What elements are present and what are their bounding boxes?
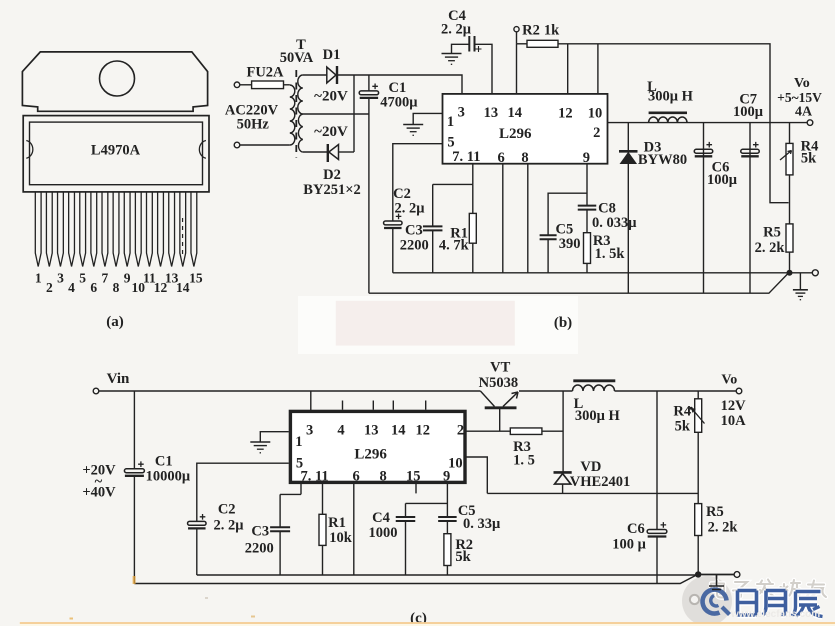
svg-text:2. 2μ: 2. 2μ — [214, 518, 245, 534]
svg-text:12: 12 — [416, 423, 431, 439]
ic U1 L296 box (b) — [443, 94, 608, 164]
svg-text:300μ H: 300μ H — [575, 408, 621, 424]
chip pin 5 — [80, 192, 86, 267]
wire pin7 stub (c) — [300, 483, 302, 494]
diode D2 — [328, 144, 339, 162]
wire C5 to R2 (c) — [446, 521, 448, 534]
wire C3 top (c) — [279, 494, 281, 527]
svg-text:9: 9 — [443, 469, 450, 485]
svg-text:N5038: N5038 — [479, 375, 518, 391]
svg-text:6: 6 — [90, 280, 97, 295]
ground rail lower (b) — [369, 274, 788, 293]
svg-text:4: 4 — [68, 280, 75, 295]
svg-text:14: 14 — [176, 280, 190, 295]
svg-text:1: 1 — [35, 271, 42, 286]
wire C6 down (c) — [656, 536, 658, 584]
svg-text:2: 2 — [593, 125, 600, 141]
svg-text:3: 3 — [57, 271, 64, 286]
watermark gray text shao — [781, 580, 801, 597]
transistor VT emitter with arrow — [503, 392, 518, 407]
chip side notch left — [26, 141, 33, 159]
ground rail upper (b) — [393, 272, 813, 274]
svg-text:C3: C3 — [251, 523, 269, 539]
wire R5 bottom — [789, 252, 791, 273]
wire pin2 to R3 (c) — [467, 430, 511, 432]
svg-text:8: 8 — [379, 469, 386, 485]
bottom rail inner (c) — [197, 574, 695, 576]
wire C6 vertical (c) — [656, 391, 658, 529]
potentiometer R4 (b) — [786, 143, 793, 175]
svg-text:C6: C6 — [627, 521, 645, 537]
svg-text:L296: L296 — [354, 447, 387, 463]
chip body outer — [23, 116, 209, 192]
svg-text:13: 13 — [484, 105, 499, 121]
svg-text:2200: 2200 — [400, 238, 429, 254]
wire C7 vertical — [749, 123, 751, 294]
wire C6 vertical (b) — [703, 123, 705, 294]
wire C1 down (c) — [133, 476, 135, 584]
transistor VT base bar — [485, 406, 517, 409]
svg-text:2. 2k: 2. 2k — [755, 240, 786, 256]
wire R2 bottom (c) — [446, 566, 448, 576]
svg-text:L296: L296 — [499, 126, 532, 142]
watermark small circle — [690, 595, 699, 604]
wire pin9 down (c) — [446, 483, 448, 517]
svg-text:VD: VD — [580, 459, 601, 475]
svg-text:3: 3 — [458, 104, 465, 120]
wire pin6 stub down (c) — [353, 483, 355, 575]
wire R1 bottom — [472, 243, 474, 273]
chip pin 14 — [180, 192, 186, 267]
svg-text:10000μ: 10000μ — [146, 468, 191, 484]
svg-text:10k: 10k — [329, 530, 353, 546]
wire R5 bottom (c) — [697, 536, 699, 575]
ground at C4 — [442, 54, 462, 65]
svg-text:+5~15V: +5~15V — [777, 90, 822, 105]
output terminal top (b) — [807, 120, 813, 126]
bottom cream strip — [20, 622, 835, 626]
wire R4 to R5 — [789, 175, 791, 224]
wire R3 right (c) — [542, 430, 563, 432]
svg-text:~20V: ~20V — [314, 89, 348, 105]
svg-text:R1: R1 — [328, 515, 346, 531]
wire C1 branch (c) — [133, 391, 135, 469]
svg-text:2. 2μ: 2. 2μ — [441, 22, 472, 38]
wire emitter to inductor rail — [519, 390, 573, 392]
pin stub top (c) — [425, 401, 427, 410]
chip pin 6 — [91, 192, 97, 267]
capacitor C6 (c) — [647, 522, 667, 536]
svg-text:100 μ: 100 μ — [612, 536, 646, 552]
wire R2 terminal down — [516, 32, 518, 44]
svg-text:C1: C1 — [155, 453, 173, 469]
resistor R3 (c) — [510, 428, 542, 435]
wire center tap — [303, 113, 369, 115]
svg-text:1: 1 — [295, 434, 302, 450]
svg-text:10A: 10A — [721, 413, 747, 429]
svg-text:1: 1 — [447, 114, 454, 130]
inductor L (c) — [573, 385, 615, 391]
chip pin 15 — [191, 192, 197, 267]
wire R2 left — [517, 43, 528, 45]
svg-text:2. 2k: 2. 2k — [708, 519, 739, 535]
wire VD bottom to mid rail — [562, 484, 564, 493]
scan speck 2 — [70, 618, 74, 620]
svg-text:BY251×2: BY251×2 — [303, 182, 360, 198]
svg-text:7: 7 — [102, 271, 109, 286]
svg-text:50Hz: 50Hz — [237, 117, 270, 133]
svg-text:5k: 5k — [455, 549, 471, 565]
scan speck 3 — [251, 616, 255, 618]
resistor R2 1k — [527, 40, 558, 47]
wire R2 right long to R4-R5 junction — [558, 44, 789, 203]
resistor R1 (b) — [469, 213, 476, 243]
bottom rail outer (c) — [134, 575, 696, 583]
wire C5 branch — [548, 193, 587, 235]
svg-text:15: 15 — [406, 469, 421, 485]
svg-text:VT: VT — [490, 360, 510, 376]
pin stub top (c) — [342, 401, 344, 410]
wire connector C4 (c) — [406, 502, 448, 504]
wire ground stem (c) — [716, 575, 718, 586]
resistor R5 (c) — [695, 504, 702, 536]
svg-text:50VA: 50VA — [280, 50, 314, 66]
chip pin 14 dashed mark — [182, 218, 184, 258]
svg-text:R5: R5 — [706, 504, 724, 520]
svg-text:2: 2 — [457, 423, 464, 439]
chip pin 2 — [46, 192, 52, 267]
svg-text:~20V: ~20V — [314, 124, 348, 140]
svg-text:4. 7k: 4. 7k — [439, 238, 470, 254]
transistor VT base stem — [499, 409, 501, 431]
wire VD vertical upper — [562, 391, 564, 472]
output terminal bottom (c) — [734, 572, 740, 578]
watermark blue char chen — [792, 592, 823, 617]
svg-text:(b): (b) — [554, 315, 572, 331]
svg-text:2. 2μ: 2. 2μ — [395, 201, 426, 217]
svg-text:R5: R5 — [763, 225, 781, 241]
svg-text:R2: R2 — [522, 23, 540, 39]
wire D2 cathode junction vertical — [353, 75, 355, 152]
wire R4 top (c) — [697, 391, 699, 399]
svg-text:8: 8 — [113, 280, 120, 295]
chip pin 11 — [147, 192, 153, 267]
chip pin 8 — [113, 192, 119, 267]
svg-text:5k: 5k — [675, 419, 691, 435]
watermark gray text dian — [711, 581, 726, 598]
svg-text:300μ H: 300μ H — [648, 89, 694, 105]
wire C1 down to ground rail — [368, 98, 370, 293]
resistor R5 (b) — [786, 224, 793, 252]
resistor R3 (b) — [584, 233, 591, 264]
watermark blue char yue — [763, 591, 786, 616]
transformer secondary lower winding — [298, 114, 302, 152]
wire connector C3-R1 — [433, 183, 473, 185]
wire junction to terminal (c) — [701, 574, 734, 576]
wire pin8 stub down — [527, 164, 529, 273]
junction redraw (c) — [695, 571, 701, 577]
svg-text:C2: C2 — [218, 501, 236, 517]
wire inductor to output (c) — [615, 390, 737, 392]
wire D1 to pin3 corner — [337, 75, 462, 94]
svg-text:C2: C2 — [393, 186, 411, 202]
chip side notch right — [199, 141, 206, 159]
svg-text:6: 6 — [497, 150, 504, 166]
ground at pin1 (b) — [403, 125, 423, 136]
wire D2 to junction — [339, 151, 355, 153]
wire pin9 down — [586, 164, 588, 206]
wire C5 bottom — [547, 239, 549, 272]
capacitor C1 — [359, 84, 378, 98]
watermark blue swirl logo — [703, 590, 730, 615]
terminal R2 top — [514, 27, 519, 32]
svg-text:C3: C3 — [405, 223, 423, 239]
svg-text:12: 12 — [558, 105, 573, 121]
watermark gray text zi — [733, 582, 749, 598]
pin stub top (c) — [372, 401, 374, 410]
transformer core — [295, 70, 297, 158]
svg-text:Vo: Vo — [721, 372, 737, 387]
scan speck 4 — [205, 597, 208, 599]
svg-text:D2: D2 — [323, 167, 341, 183]
wire AC input top — [240, 84, 252, 86]
svg-text:1. 5k: 1. 5k — [595, 246, 626, 262]
ground (c) partially hidden — [709, 586, 724, 590]
svg-text:+40V: +40V — [82, 485, 116, 501]
wire pin2 output rail — [608, 122, 808, 124]
scan speck 1 — [133, 576, 136, 584]
pin stub top (c) — [392, 401, 394, 410]
fuse FU2A — [252, 81, 284, 89]
diode D1 — [327, 66, 337, 84]
svg-text:2: 2 — [46, 280, 53, 295]
wire R1 bottom (c) — [322, 545, 324, 575]
wire C2 down (c) — [196, 528, 198, 575]
svg-text:FU2A: FU2A — [246, 65, 284, 81]
capacitor C5 (b) — [540, 235, 557, 239]
input terminal top (b) — [234, 82, 240, 88]
wire stub pin10 top — [597, 44, 599, 94]
wire C4 top (c) — [405, 503, 407, 516]
capacitor C5 (c) — [438, 517, 457, 521]
wire connector pin7 to C3 (c) — [280, 493, 301, 495]
wire R3 bottom — [586, 263, 588, 272]
svg-text:390: 390 — [559, 236, 581, 252]
R4 wiper arrow (c) — [692, 409, 705, 424]
svg-text:4: 4 — [337, 423, 344, 439]
wire pin6 stub down — [502, 164, 504, 273]
wire fuse to primary — [284, 84, 290, 86]
ground (c) redraw over watermark — [709, 575, 724, 590]
resistor R1 (c) — [319, 514, 326, 545]
wire secondary top to D1 — [303, 74, 327, 76]
wire C3 top — [432, 184, 434, 226]
svg-text:7. 11: 7. 11 — [452, 149, 480, 165]
junction dot (c) — [695, 571, 701, 577]
watermark gray text you — [807, 581, 827, 598]
svg-text:0. 033μ: 0. 033μ — [592, 215, 637, 231]
wire pin7-11 stub — [472, 164, 474, 185]
svg-text:(a): (a) — [106, 314, 124, 330]
wire pin1 to ground (c) — [260, 432, 289, 442]
input terminal Vin — [93, 388, 99, 394]
inductor L (b) — [649, 117, 687, 123]
chip pin 13 — [169, 192, 175, 267]
junction dot (b) — [787, 270, 793, 276]
resistor R2 (c) — [444, 534, 451, 566]
svg-text:5: 5 — [447, 134, 454, 150]
wire D3 vertical — [627, 123, 629, 294]
wire Vin rail — [99, 390, 481, 392]
background patch — [298, 296, 578, 354]
svg-text:100μ: 100μ — [733, 104, 764, 120]
R4 wiper arrow (b) — [780, 151, 792, 161]
wire C4 right to pin14 stub — [475, 44, 493, 94]
chip tab hole — [100, 61, 135, 96]
wire C2 down to rail — [392, 228, 394, 273]
wire R1 top — [472, 184, 474, 213]
svg-text:Vo: Vo — [794, 76, 810, 91]
wire pin15 stub (c) — [415, 483, 417, 493]
svg-text:14: 14 — [508, 105, 523, 121]
input terminal bottom (b) — [234, 142, 240, 148]
wire C3 bottom — [432, 230, 434, 272]
svg-text:2200: 2200 — [245, 541, 274, 557]
potentiometer R4 (c) — [695, 399, 702, 433]
wire box top stub (c) — [310, 391, 312, 410]
svg-text:5: 5 — [79, 271, 86, 286]
capacitor C6 (b) — [694, 142, 713, 156]
diode D3 — [619, 151, 638, 163]
watermark blue char ri — [738, 591, 757, 616]
wire AC input bottom — [240, 144, 290, 146]
wire R1 top (c) — [322, 483, 324, 514]
wire C4 bottom (c) — [405, 521, 407, 575]
chip pin 4 — [69, 192, 75, 267]
capacitor C2 (b) — [384, 214, 403, 228]
svg-text:7. 11: 7. 11 — [300, 469, 328, 485]
svg-text:R4: R4 — [673, 404, 691, 420]
svg-text:10: 10 — [588, 105, 603, 121]
output terminal bottom (b) — [812, 270, 818, 276]
chip body inner — [30, 122, 203, 185]
svg-text:100μ: 100μ — [707, 172, 738, 188]
chip package tab — [22, 52, 207, 111]
svg-text:5k: 5k — [801, 150, 817, 166]
transformer secondary upper winding — [298, 75, 303, 114]
wire redraw junction to terminal (c) — [701, 574, 734, 576]
wire C1 top — [368, 75, 370, 91]
svg-text:4700μ: 4700μ — [380, 95, 418, 111]
mid feedback rail (c) — [487, 492, 698, 494]
svg-text:Vin: Vin — [107, 371, 130, 387]
wire R4 top (b) — [789, 123, 791, 144]
svg-text:4A: 4A — [795, 105, 813, 120]
wire pin5 to C2 — [393, 144, 443, 222]
svg-text:9: 9 — [124, 271, 131, 286]
wire R4 to mid rail junction — [697, 432, 699, 503]
inductor L core bar (b) — [649, 112, 687, 115]
capacitor C8 — [578, 206, 597, 210]
capacitor C2 (c) — [188, 514, 207, 528]
svg-text:12V: 12V — [721, 398, 747, 414]
capacitor C4 — [469, 36, 481, 52]
capacitor C3 (b) — [423, 226, 443, 230]
svg-text:14: 14 — [391, 423, 406, 439]
wire pin1 to ground — [413, 113, 442, 124]
svg-text:D1: D1 — [323, 47, 341, 63]
svg-text:www.elecfans.com: www.elecfans.com — [730, 609, 820, 620]
svg-text:1000: 1000 — [369, 525, 398, 541]
svg-text:6: 6 — [352, 469, 359, 485]
transistor VT collector lead — [480, 391, 494, 407]
wire pin5 to C2 (c) — [197, 463, 289, 521]
wire C8 to R3 — [586, 210, 588, 233]
output terminal Vo (c) — [736, 388, 742, 394]
svg-text:1k: 1k — [544, 23, 560, 39]
svg-text:1. 5: 1. 5 — [513, 453, 535, 469]
svg-text:8: 8 — [521, 150, 528, 166]
wire C4 left to ground — [452, 44, 470, 53]
capacitor C7 — [741, 142, 760, 156]
svg-text:0. 33μ: 0. 33μ — [463, 516, 501, 532]
capacitor C4 (c) — [396, 517, 416, 521]
wire ground stem (b) — [799, 273, 801, 290]
svg-text:10: 10 — [448, 455, 463, 471]
ground at pin1 (c) — [250, 442, 270, 453]
chip pin 1 — [35, 192, 41, 267]
svg-text:C4: C4 — [372, 510, 390, 526]
svg-text:15: 15 — [189, 271, 203, 286]
chip pin 7 — [102, 192, 108, 267]
svg-text:3: 3 — [306, 423, 313, 439]
wire stub pin13 — [516, 44, 518, 94]
svg-text:13: 13 — [364, 423, 379, 439]
wire secondary bottom to D2 — [303, 151, 327, 153]
svg-text:BYW80: BYW80 — [638, 152, 687, 168]
svg-text:9: 9 — [583, 150, 590, 166]
capacitor C1 (c) — [124, 461, 144, 475]
svg-text:VHE2401: VHE2401 — [570, 474, 630, 490]
transformer primary winding — [290, 85, 295, 145]
chip pin 10 — [135, 192, 141, 267]
wire stub pin12 — [567, 44, 569, 94]
svg-text:L4970A: L4970A — [91, 143, 141, 159]
chip pin 9 — [124, 192, 130, 267]
inductor L core bar (c) — [573, 379, 615, 382]
watermark gray disc — [682, 576, 732, 626]
watermark gray text fa — [757, 580, 774, 598]
chip pin 12 — [158, 192, 164, 267]
ground (b) right — [793, 290, 808, 300]
ic U2 L296 box (c) — [290, 411, 465, 482]
wire C3 bottom (c) — [279, 531, 281, 575]
capacitor C3 (c) — [270, 527, 290, 531]
diode VD — [554, 472, 572, 484]
wire pin10 connector (c) — [467, 457, 488, 493]
chip pin 3 — [58, 192, 64, 267]
